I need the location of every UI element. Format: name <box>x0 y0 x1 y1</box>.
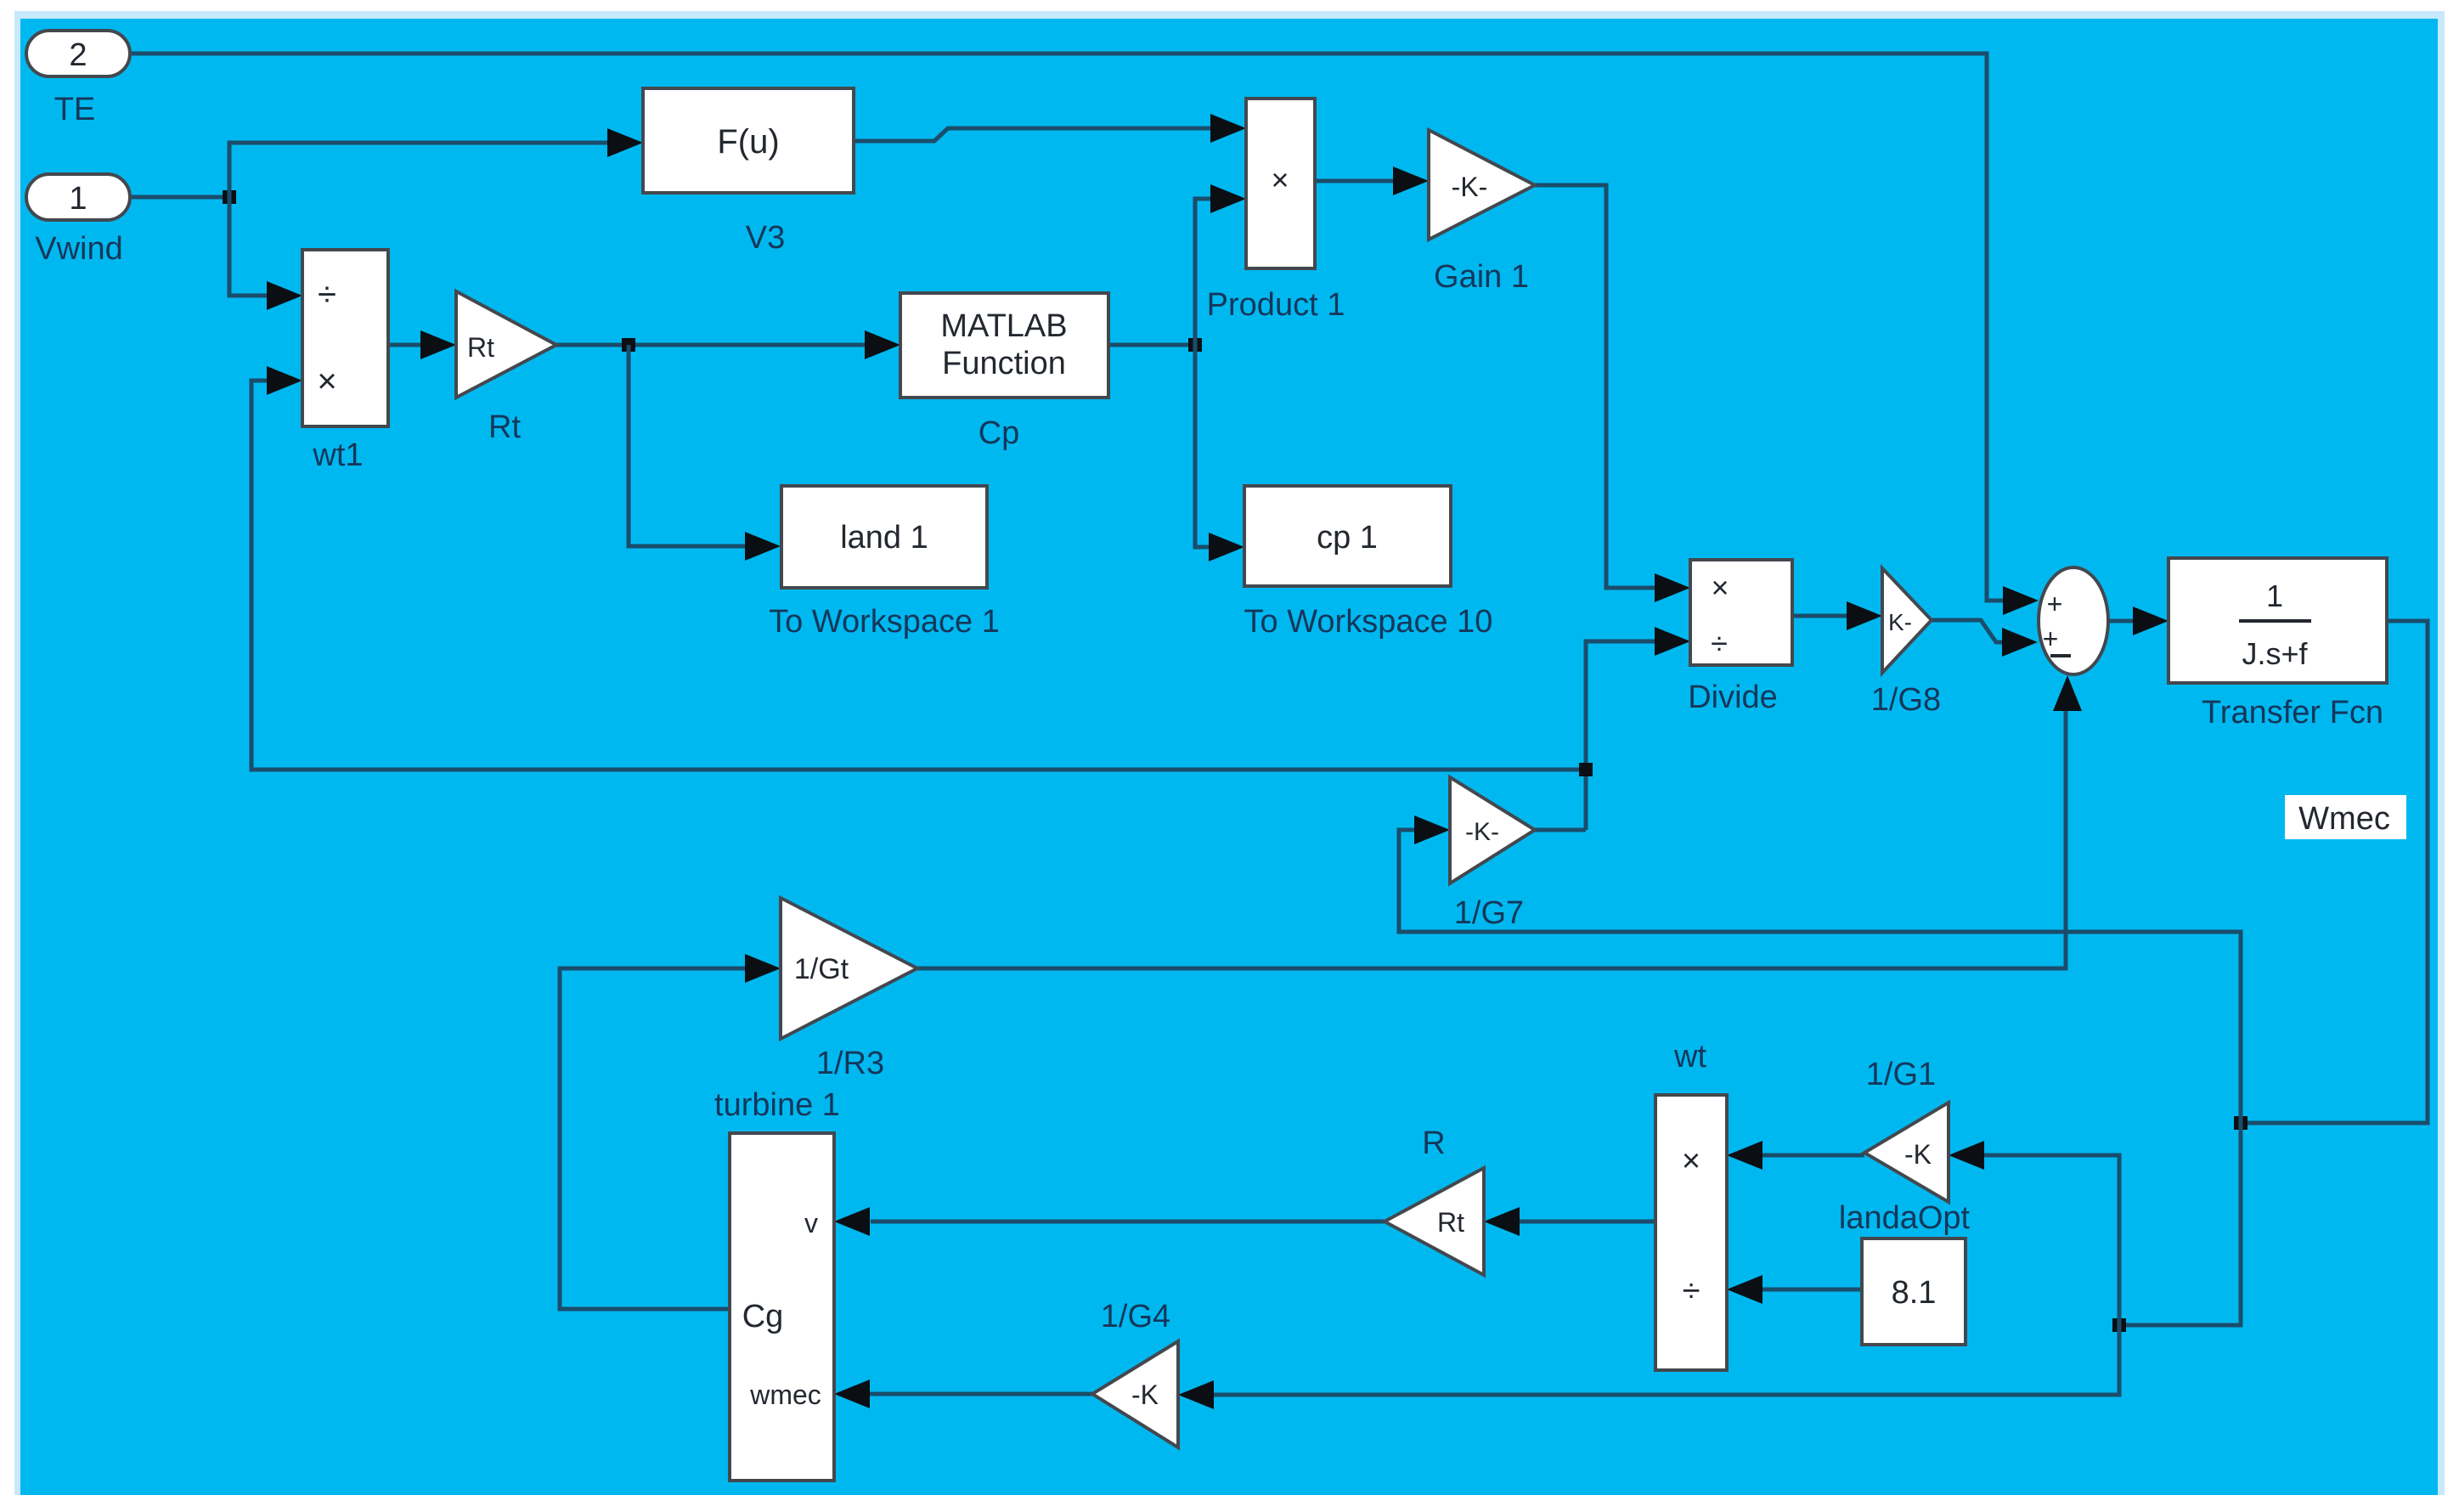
gain 1/G7 <box>1450 777 1535 883</box>
svg-text:turbine 1: turbine 1 <box>714 1087 840 1123</box>
svg-text:Rt: Rt <box>488 409 521 445</box>
node feedback junction <box>2234 1116 2248 1130</box>
svg-text:v: v <box>804 1208 818 1238</box>
wire branch up to Product 1 second input <box>1195 199 1210 345</box>
svg-text:cp 1: cp 1 <box>1317 520 1378 556</box>
wire 1/G7 out to vertical <box>1535 828 1586 832</box>
svg-text:J.s+f: J.s+f <box>2242 636 2308 671</box>
gain Rt2 left-pointing <box>1385 1168 1484 1275</box>
svg-text:R: R <box>1422 1126 1445 1161</box>
gain 1/G4 left-pointing <box>1092 1341 1178 1447</box>
svg-text:1: 1 <box>69 181 87 217</box>
wire 1/G8 out to Sum second input <box>1932 620 2003 642</box>
block turbine 1 <box>730 1133 834 1481</box>
sum block <box>2039 567 2108 674</box>
svg-text:Gain 1: Gain 1 <box>1434 259 1529 295</box>
svg-text:wmec: wmec <box>749 1379 821 1410</box>
block To Workspace 1 land 1 <box>781 486 987 588</box>
inport 1 Vwind <box>26 174 130 220</box>
wire omega feedback vertical to Divide divide input <box>1586 641 1655 830</box>
gain Rt <box>456 291 556 398</box>
block Divide <box>1690 560 1792 665</box>
wire Rt to MATLAB Function with branch <box>556 343 865 347</box>
block Transfer Fcn <box>2169 558 2387 683</box>
wire split up to 1/G1 input <box>1984 1155 2119 1325</box>
wire Rt2 out to turbine v input <box>871 1220 1385 1224</box>
block To Workspace 10 cp 1 <box>1244 486 1451 586</box>
svg-text:1/G8: 1/G8 <box>1871 682 1941 718</box>
svg-text:×: × <box>317 363 336 400</box>
wire junction to F(u) <box>229 143 609 197</box>
svg-text:To Workspace 1: To Workspace 1 <box>769 604 1000 640</box>
block constant 8.1 <box>1862 1238 1966 1345</box>
svg-text:Product 1: Product 1 <box>1207 287 1345 323</box>
wire branch down to land 1 <box>629 345 745 546</box>
node MATLAB-out junction <box>1188 338 1202 352</box>
label box Wmec <box>2285 795 2406 839</box>
svg-text:÷: ÷ <box>318 276 336 313</box>
svg-text:wt: wt <box>1673 1039 1706 1075</box>
svg-text:÷: ÷ <box>1711 626 1728 661</box>
svg-text:Cg: Cg <box>742 1299 784 1334</box>
wire junction up to 1/G7 input <box>1399 830 2241 1123</box>
svg-text:2: 2 <box>69 37 87 73</box>
svg-text:1: 1 <box>2266 578 2283 613</box>
block MATLAB Function Cp <box>900 293 1108 398</box>
wire split down to 1/G4 input <box>1214 1325 2119 1395</box>
svg-text:×: × <box>1271 162 1289 197</box>
svg-text:V3: V3 <box>746 220 785 256</box>
svg-text:×: × <box>1682 1143 1700 1179</box>
svg-text:1/Gt: 1/Gt <box>794 953 849 985</box>
wire MATLAB out with branches to Product 1 and cp 1 <box>1108 343 1195 347</box>
gain Gain 1 <box>1429 130 1535 240</box>
svg-text:Cp: Cp <box>979 415 1020 451</box>
svg-text:Transfer Fcn: Transfer Fcn <box>2202 695 2383 731</box>
svg-text:F(u): F(u) <box>717 123 779 161</box>
svg-text:To Workspace 10: To Workspace 10 <box>1244 604 1493 640</box>
wire turbine Cg out to 1/Gt input <box>560 968 745 1309</box>
svg-text:-K-: -K- <box>1452 172 1488 202</box>
wire wt1 out to Rt <box>388 343 420 347</box>
block wt <box>1655 1095 1727 1370</box>
gain 1/Gt 1/R3 <box>781 898 917 1039</box>
svg-text:Wmec: Wmec <box>2298 801 2390 837</box>
wire Transfer Fcn out feedback right and down <box>2241 621 2428 1123</box>
wire junction to wt1 divide input <box>229 197 267 296</box>
svg-text:Rt: Rt <box>1437 1207 1464 1238</box>
block wt1 divide <box>302 250 388 426</box>
gain 1/G8 <box>1882 568 1932 673</box>
wire junction down to split <box>2119 1123 2241 1325</box>
svg-text:wt1: wt1 <box>312 437 363 473</box>
svg-text:+: + <box>2043 623 2059 654</box>
svg-text:×: × <box>1711 570 1729 605</box>
svg-text:landaOpt: landaOpt <box>1839 1200 1971 1236</box>
wire 8.1 to wt divide input <box>1762 1288 1862 1292</box>
wire wt out to Rt2 input <box>1520 1220 1655 1224</box>
svg-text:land 1: land 1 <box>840 520 928 556</box>
svg-text:MATLAB: MATLAB <box>940 308 1067 344</box>
svg-text:-K: -K <box>1904 1139 1932 1170</box>
wire Vwind to junction <box>130 195 229 200</box>
wire TE top <box>130 54 2003 601</box>
wire Divide out to 1/G8 <box>1792 614 1847 618</box>
outport 2 TE <box>26 31 130 76</box>
wire F(u) to Product 1 first input <box>854 128 1210 141</box>
svg-text:Vwind: Vwind <box>35 231 123 267</box>
svg-text:TE: TE <box>54 92 96 127</box>
svg-text:Rt: Rt <box>467 332 494 363</box>
svg-text:÷: ÷ <box>1683 1273 1700 1309</box>
wire 1/Gt out long to Sum bottom input <box>917 711 2066 968</box>
block F(u) V3 <box>643 88 854 193</box>
svg-text:+: + <box>2047 589 2063 619</box>
svg-text:K-: K- <box>1888 609 1912 635</box>
svg-text:-K-: -K- <box>1465 818 1499 846</box>
svg-text:Divide: Divide <box>1688 680 1778 715</box>
svg-text:1/G4: 1/G4 <box>1101 1299 1170 1334</box>
svg-text:-K: -K <box>1131 1379 1159 1410</box>
node Vwind junction <box>223 190 236 204</box>
svg-text:1/R3: 1/R3 <box>816 1046 884 1081</box>
wire branch down to cp 1 <box>1195 345 1209 547</box>
wire long feedback to wt1 x input <box>251 381 1586 770</box>
wire Sum out to Transfer Fcn <box>2108 619 2133 623</box>
wire Product 1 out to Gain 1 <box>1315 179 1393 183</box>
gain 1/G1 left-pointing <box>1864 1103 1949 1202</box>
wire 1/G4 out to turbine wmec input <box>870 1392 1092 1396</box>
wire Gain 1 out to Divide x input <box>1535 185 1655 588</box>
svg-text:Function: Function <box>942 346 1066 381</box>
node omega junction <box>1579 763 1593 776</box>
svg-text:1/G7: 1/G7 <box>1454 895 1524 931</box>
node Rt-out junction <box>622 338 635 352</box>
svg-text:8.1: 8.1 <box>1892 1275 1937 1311</box>
node split junction <box>2112 1318 2126 1332</box>
wire 1/G1 out to wt x input <box>1762 1154 1864 1158</box>
block Product 1 <box>1246 99 1315 268</box>
svg-text:1/G1: 1/G1 <box>1866 1057 1936 1092</box>
